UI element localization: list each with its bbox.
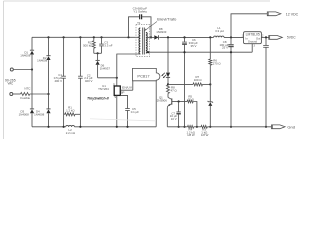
output connector 12 VDC <box>267 12 281 16</box>
svg-text:1N4008: 1N4008 <box>37 58 48 62</box>
svg-text:25 V: 25 V <box>222 46 228 50</box>
secondary ground rail <box>167 126 187 128</box>
svg-text:TNY264: TNY264 <box>98 87 109 91</box>
clamp join wire <box>94 52 102 54</box>
svg-text:PC817: PC817 <box>137 74 149 78</box>
svg-text:5VDC: 5VDC <box>287 36 296 40</box>
diode D8 1N4933 (output rectifier) <box>146 36 154 38</box>
svg-text:Brevi/Trafo: Brevi/Trafo <box>157 18 176 22</box>
diode D4 1N4008 <box>46 108 50 110</box>
faint page line <box>90 119 156 121</box>
output connector Gnd <box>272 125 286 129</box>
left bridge column (D1/D3) <box>31 37 33 50</box>
T1 core <box>142 28 144 55</box>
svg-text:0.1 µF: 0.1 µF <box>131 110 139 114</box>
wire Q1 base node <box>172 101 187 103</box>
capacitor C3 3.3nF (clamp) <box>100 36 102 38</box>
diode D2 1N4008 <box>46 55 50 57</box>
diode D3 1N4008 <box>30 108 34 110</box>
resistor R2 500k (clamp) <box>93 36 95 38</box>
svg-text:1N4008: 1N4008 <box>34 113 45 117</box>
capacitor C2 2.2uF 400V <box>79 36 81 38</box>
svg-text:Ground: Ground <box>248 40 257 44</box>
svg-text:1/8 W: 1/8 W <box>187 133 195 137</box>
wire terminal-L to node AC1 <box>13 69 32 71</box>
svg-text:Gnd: Gnd <box>287 126 295 130</box>
U2 phototransistor emitter pin to EN/UV <box>132 81 134 90</box>
svg-text:1N4008: 1N4008 <box>20 53 31 57</box>
svg-text:12 VDC: 12 VDC <box>286 13 299 17</box>
wire 12V output riser <box>231 14 267 38</box>
diode D6 1N4937 (clamp) <box>97 53 99 60</box>
svg-text:3.3 µH: 3.3 µH <box>215 29 224 33</box>
fusible NTC resistor RF1 <box>13 93 21 95</box>
svg-text:3.3 nF: 3.3 nF <box>104 43 112 47</box>
right bridge column (D2/D4) <box>47 36 49 38</box>
svg-text:47 Ω: 47 Ω <box>171 88 178 92</box>
inductor L1 3.3uH <box>214 36 224 37</box>
IC U1 TNY264 (TinySwitch-II) <box>114 86 120 95</box>
capacitor C5 0.1uF (bypass) <box>125 108 130 110</box>
zener diode VR1 <box>208 101 213 103</box>
svg-text:T1: T1 <box>137 21 141 25</box>
optocoupler U2 PC817 package <box>133 68 160 80</box>
svg-text:VAC: VAC <box>7 82 13 86</box>
svg-text:35 V: 35 V <box>191 44 197 48</box>
border frame (partial, light) <box>4 0 271 2</box>
svg-text:100 Ω: 100 Ω <box>194 78 203 82</box>
resistor R4 (in ground rail) <box>188 125 194 128</box>
svg-text:S: S <box>114 95 116 99</box>
wire drain (primary bottom to U1) <box>117 54 141 86</box>
svg-text:1N4008: 1N4008 <box>19 113 30 117</box>
svg-text:Fusible: Fusible <box>20 96 30 100</box>
regulator U3 LM78L05 <box>244 32 262 44</box>
wire clamp to drain node <box>98 77 117 79</box>
svg-text:10 V: 10 V <box>171 117 177 121</box>
resistor R1 1.2k (parallel with choke) <box>64 113 65 115</box>
svg-text:BP: BP <box>121 91 125 95</box>
svg-text:NTC: NTC <box>24 86 31 90</box>
U2 collector pin to primary ground <box>155 81 157 127</box>
output connector 5VDC <box>269 36 283 40</box>
T1 secondary winding <box>146 33 147 53</box>
svg-text:2.2 mH: 2.2 mH <box>66 131 75 135</box>
svg-text:500 kΩ: 500 kΩ <box>83 43 93 47</box>
secondary +12V rail <box>168 36 214 38</box>
DC+ top rail <box>32 36 139 38</box>
svg-text:22 Ω: 22 Ω <box>188 97 195 101</box>
resistor R8 47 ohm <box>167 85 170 93</box>
secondary ground bus <box>146 51 252 53</box>
svg-text:EN/UV: EN/UV <box>122 85 133 89</box>
resistor R5 22 ohm <box>187 100 193 103</box>
svg-text:2N3906: 2N3906 <box>157 98 168 102</box>
wire Q1 emitter to secondary ground rail <box>166 108 168 127</box>
svg-text:Out: Out <box>256 36 261 40</box>
svg-text:270 Ω: 270 Ω <box>213 62 222 66</box>
svg-text:TinySwitch-II: TinySwitch-II <box>87 96 109 100</box>
resistor R7 100 ohm <box>168 83 193 85</box>
diode D1 1N4008 <box>30 49 34 51</box>
svg-text:400 V: 400 V <box>54 79 62 83</box>
wire 5V output <box>261 36 268 38</box>
wire source pin to primary ground <box>116 95 118 126</box>
transistor Q1 2N3906 <box>168 97 172 99</box>
capacitor C9 680pF Y1 safety <box>127 36 129 38</box>
primary bottom rail <box>32 126 66 128</box>
svg-text:1N4937: 1N4937 <box>100 67 111 71</box>
svg-text:Y1 Safety: Y1 Safety <box>133 10 147 14</box>
svg-text:400 V: 400 V <box>85 79 93 83</box>
input terminal L (circle) <box>10 68 13 71</box>
opto LED (part of U2) with light arrows <box>167 36 169 38</box>
svg-text:LM78L05: LM78L05 <box>246 33 260 37</box>
svg-text:1N4933: 1N4933 <box>156 30 167 34</box>
transformer T1 dashed box <box>136 24 150 56</box>
capacitor C10 0.1uF (5V) <box>265 37 267 45</box>
capacitor C7 10uF 10V <box>178 102 180 112</box>
resistor R3 (in ground rail) <box>201 125 207 128</box>
input terminal N (circle) <box>10 93 13 96</box>
svg-text:D: D <box>113 82 115 86</box>
resistor R6 270 ohm <box>209 36 211 38</box>
capacitor C6 330uF 35V <box>183 36 185 38</box>
T1 primary winding <box>139 28 140 54</box>
wire 78L05 ground pin <box>251 44 253 53</box>
capacitor C1 0.5uF 400V <box>63 36 65 38</box>
inductor L2 2.2mH (in bottom rail) <box>66 125 75 126</box>
capacitor C8 100uF 25V <box>230 36 232 38</box>
svg-text:1.2 kΩ: 1.2 kΩ <box>66 108 75 112</box>
svg-text:1/8 W: 1/8 W <box>201 133 209 137</box>
